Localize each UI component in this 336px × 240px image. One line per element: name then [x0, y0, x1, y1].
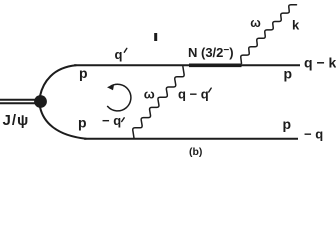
svg-text:p: p [79, 65, 88, 81]
svg-text:k: k [292, 18, 300, 33]
svg-text:ω: ω [250, 16, 261, 30]
lone vertical tick mark above top line [154, 33, 157, 41]
svg-text:J/ψ: J/ψ [3, 112, 30, 129]
svg-text:p: p [283, 116, 292, 132]
vertex blob [34, 95, 47, 108]
omega radiated zigzag (bar to top right) [241, 5, 297, 64]
N(3/2-) resonance thick bar [189, 64, 242, 68]
svg-text:− q: − q [102, 113, 121, 128]
top quark line [74, 64, 300, 66]
prime of q - q' [209, 88, 212, 92]
svg-text:p: p [78, 115, 87, 131]
svg-text:q: q [115, 47, 123, 62]
loop arrowhead [107, 84, 114, 90]
svg-text:− q: − q [304, 127, 323, 142]
J/psi incoming double line [0, 100, 37, 104]
omega exchange zigzag (bottom line to bar) [133, 67, 184, 138]
svg-text:q − k: q − k [304, 55, 336, 71]
upper quark curve from blob [40, 65, 76, 96]
bottom quark line [84, 138, 298, 140]
prime of upper q' [124, 48, 127, 52]
prime of -q' [122, 118, 125, 122]
svg-text:p: p [284, 66, 293, 82]
lower quark curve from blob [40, 107, 86, 139]
svg-text:ω: ω [144, 87, 155, 102]
quark loop circle arrow [108, 84, 131, 111]
svg-text:q − q: q − q [178, 87, 209, 102]
svg-text:(b): (b) [189, 146, 202, 158]
